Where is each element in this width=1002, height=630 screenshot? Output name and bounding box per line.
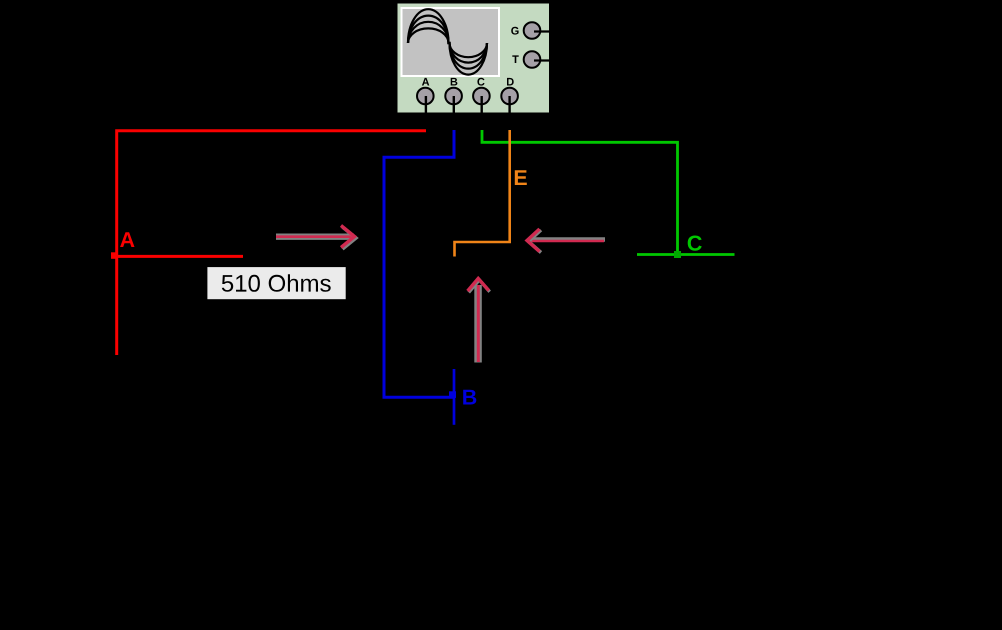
pin B label xyxy=(451,78,458,86)
current arrow up (annotation) xyxy=(468,279,490,363)
current arrow left (annotation) xyxy=(527,229,605,253)
node B label xyxy=(463,390,476,405)
pin G terminal xyxy=(524,22,541,39)
wire net B pin stub xyxy=(453,369,456,425)
pin B terminal xyxy=(445,88,462,105)
wire net C stub xyxy=(637,253,735,256)
pin A terminal xyxy=(417,88,434,105)
oscilloscope U1 body xyxy=(398,4,550,113)
pin D terminal xyxy=(501,88,518,105)
node B junction xyxy=(449,391,456,398)
node E label xyxy=(515,170,527,185)
wire net B (blue) from scope pin B xyxy=(384,130,454,397)
pin D lead xyxy=(508,96,510,130)
scope trace wave 4 xyxy=(408,9,487,74)
oscilloscope screen bezel xyxy=(401,7,501,77)
pin C terminal xyxy=(473,88,490,105)
pin G lead xyxy=(532,30,550,32)
node C junction xyxy=(674,251,681,258)
pin D label xyxy=(507,78,514,86)
pin C label xyxy=(477,78,484,86)
node A junction xyxy=(111,252,118,258)
scope trace wave 1 xyxy=(408,28,487,57)
wire net C (green) from scope pin C xyxy=(482,130,678,255)
scope trace wave 2 xyxy=(408,22,487,63)
current arrow right (annotation) xyxy=(276,226,356,250)
pin C lead xyxy=(481,96,483,130)
pin T lead xyxy=(532,59,550,61)
pin A lead xyxy=(425,96,427,130)
node C label xyxy=(688,236,702,251)
pin G label xyxy=(511,27,518,35)
scope trace wave 3 xyxy=(408,16,487,69)
pin T terminal xyxy=(524,51,541,68)
oscilloscope screen xyxy=(403,9,499,75)
pin B lead xyxy=(453,96,455,130)
node A label xyxy=(120,232,134,247)
resistor R1 value label xyxy=(207,267,345,299)
pin A label xyxy=(422,78,429,86)
pin T label xyxy=(512,55,518,63)
wire net A stub xyxy=(112,255,244,258)
wire net E (orange) from scope pin D xyxy=(455,130,510,257)
wire net A (red) from scope pin A xyxy=(117,131,426,355)
